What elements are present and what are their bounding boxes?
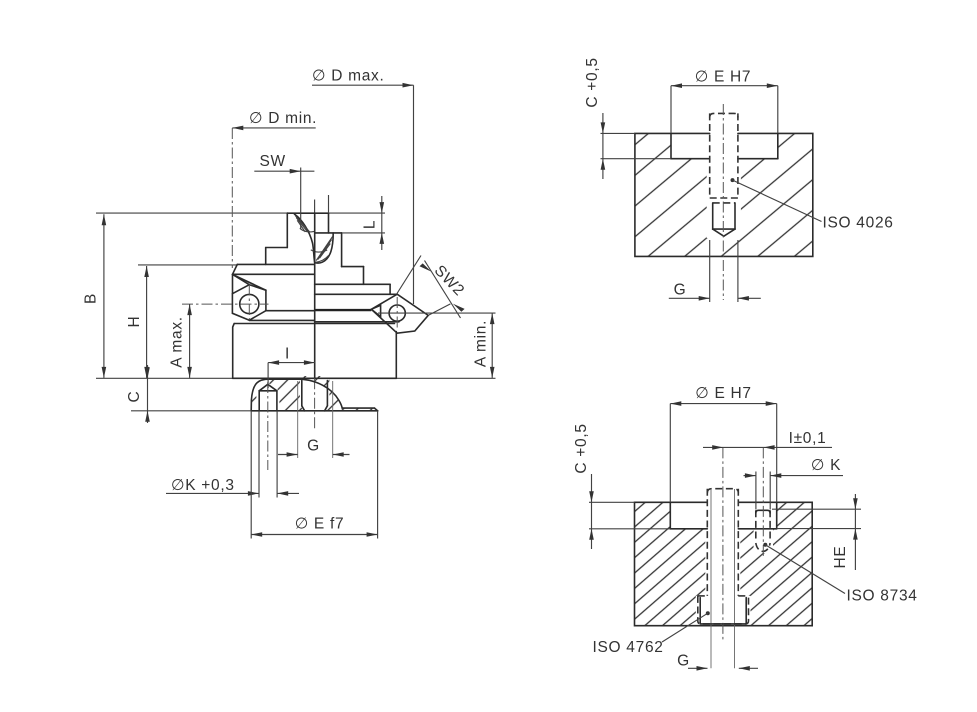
svg-text:B: B bbox=[83, 293, 100, 304]
svg-text:A max.: A max. bbox=[169, 316, 186, 368]
svg-text:∅ E H7: ∅ E H7 bbox=[695, 385, 751, 402]
svg-text:SW: SW bbox=[260, 153, 286, 170]
svg-text:∅ D min.: ∅ D min. bbox=[249, 110, 317, 127]
svg-text:∅ E f7: ∅ E f7 bbox=[295, 516, 345, 533]
svg-text:I: I bbox=[285, 346, 290, 363]
svg-text:ISO 4762: ISO 4762 bbox=[593, 639, 664, 656]
svg-text:C +0,5: C +0,5 bbox=[584, 57, 601, 107]
svg-text:∅K +0,3: ∅K +0,3 bbox=[171, 477, 235, 494]
svg-text:∅ E H7: ∅ E H7 bbox=[695, 69, 751, 86]
svg-text:C +0,5: C +0,5 bbox=[573, 423, 590, 473]
svg-text:I±0,1: I±0,1 bbox=[789, 430, 827, 447]
svg-text:∅ K: ∅ K bbox=[811, 457, 841, 474]
svg-text:G: G bbox=[674, 282, 687, 299]
svg-text:ISO 8734: ISO 8734 bbox=[847, 588, 918, 605]
svg-text:HE: HE bbox=[832, 546, 849, 569]
svg-text:C: C bbox=[126, 391, 143, 403]
svg-text:ISO 4026: ISO 4026 bbox=[823, 215, 894, 232]
svg-text:∅ D max.: ∅ D max. bbox=[312, 68, 385, 85]
svg-text:H: H bbox=[126, 316, 143, 328]
svg-text:A min.: A min. bbox=[473, 320, 490, 367]
svg-text:G: G bbox=[677, 653, 690, 670]
svg-text:G: G bbox=[307, 438, 320, 455]
svg-text:L: L bbox=[362, 220, 379, 229]
